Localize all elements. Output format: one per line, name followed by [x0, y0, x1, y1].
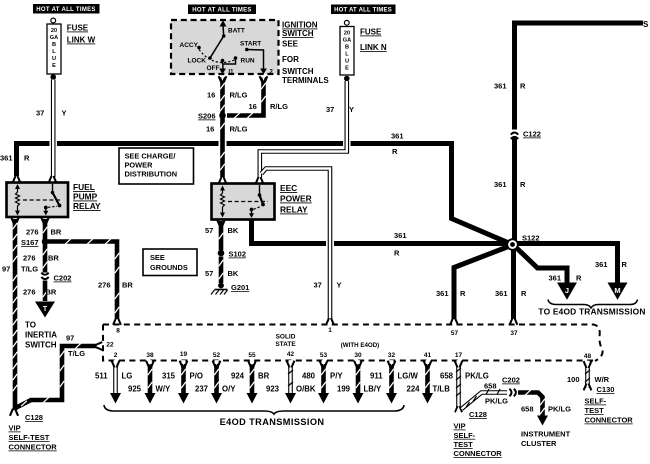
TCM bottom pin 48 wire 100 W/R (hollow)	[584, 353, 592, 391]
wire: S122 right then down to arrow M	[514, 244, 618, 285]
TCM bottom pin 53 wire 480 P/Y	[318, 352, 329, 404]
svg-text:R: R	[392, 147, 398, 156]
svg-text:BATT: BATT	[228, 28, 245, 35]
svg-text:C202: C202	[54, 274, 72, 283]
svg-text:511: 511	[95, 372, 108, 381]
fuel pump relay box	[7, 176, 102, 217]
fuse link W	[47, 18, 96, 80]
svg-text:S102: S102	[229, 250, 247, 259]
svg-text:INSTRUMENT: INSTRUMENT	[521, 430, 571, 439]
svg-text:R: R	[521, 289, 527, 298]
svg-text:57: 57	[451, 330, 459, 337]
svg-text:B: B	[345, 45, 349, 51]
wire: 276 BR S167 branch to TCM pin 8	[45, 239, 121, 326]
label 16 R/LG (below S206)	[206, 125, 248, 134]
label 37 Y (fuse W)	[36, 109, 67, 118]
svg-text:41: 41	[424, 352, 432, 359]
svg-text:FUEL: FUEL	[73, 182, 95, 192]
connector C130	[597, 385, 615, 394]
label 199 LB/Y	[337, 385, 382, 394]
svg-text:C128: C128	[25, 413, 43, 422]
brace TO E4OD TRANSMISSION	[538, 300, 645, 317]
wire: 97 T/LG branch to TCM pin 22	[15, 342, 103, 408]
HOT AT ALL TIMES (left)	[33, 4, 100, 14]
svg-text:I1: I1	[229, 70, 235, 76]
instrument cluster label	[521, 430, 571, 449]
svg-text:L: L	[345, 52, 349, 58]
svg-text:37: 37	[314, 281, 322, 290]
label 658 PK/LG (pin 17)	[440, 372, 489, 381]
svg-text:BR: BR	[48, 254, 59, 263]
svg-text:16: 16	[207, 91, 215, 100]
svg-text:315: 315	[162, 372, 176, 381]
TCM bottom pin 38 wire 925 W/Y	[145, 352, 156, 404]
svg-text:C202: C202	[502, 376, 520, 385]
svg-text:PUMP: PUMP	[73, 192, 98, 202]
label 276 BR (to pin 8)	[98, 281, 133, 290]
svg-text:658: 658	[521, 405, 534, 414]
svg-text:FUSE: FUSE	[360, 28, 382, 37]
svg-text:EEC: EEC	[280, 183, 297, 193]
svg-text:276: 276	[23, 254, 36, 263]
svg-text:1: 1	[328, 327, 332, 334]
svg-text:TO: TO	[25, 321, 36, 330]
svg-text:ACCY: ACCY	[180, 42, 199, 49]
svg-text:R/LG: R/LG	[230, 91, 248, 100]
svg-text:C130: C130	[597, 385, 615, 394]
SEE GROUNDS box	[143, 249, 197, 276]
svg-text:LB/Y: LB/Y	[364, 385, 383, 394]
svg-text:Y: Y	[337, 281, 342, 290]
svg-text:16: 16	[249, 102, 257, 111]
label 361 R (S122 to 57)	[436, 289, 466, 298]
TCM bottom pin 52 wire 237 O/Y	[211, 352, 222, 404]
svg-text:START: START	[240, 41, 261, 48]
fuse link N	[340, 20, 387, 81]
svg-text:SELF-: SELF-	[454, 431, 476, 440]
label 658 (before C202)	[484, 382, 497, 391]
svg-text:48: 48	[584, 353, 592, 360]
svg-text:361: 361	[595, 260, 608, 269]
svg-text:CONNECTOR: CONNECTOR	[9, 443, 58, 452]
svg-text:S206: S206	[198, 112, 216, 121]
TCM bottom pin 2 wire 511 LG (hollow)	[110, 352, 121, 404]
TCM bottom pin 55 wire 924 BR	[247, 352, 258, 404]
svg-text:53: 53	[320, 352, 328, 359]
brace E4OD TRANSMISSION	[104, 405, 404, 427]
label 361 R (below C122)	[494, 180, 526, 189]
TCM bottom pin 42 wire 923 O/BK (hollow)	[285, 351, 296, 404]
VIP self-test connector label (right)	[454, 422, 503, 459]
svg-text:DISTRIBUTION: DISTRIBUTION	[125, 170, 178, 179]
wire: 37 Y branch to TCM pin 1 (hollow)	[262, 169, 334, 326]
svg-text:S167: S167	[21, 238, 39, 247]
connector C128 (VIP left)	[9, 413, 58, 452]
svg-text:97: 97	[66, 334, 74, 343]
label 57 BK (lower)	[205, 269, 239, 278]
label 923 O/BK	[266, 385, 316, 394]
svg-text:276: 276	[98, 281, 111, 290]
label 361 R (left)	[0, 154, 30, 163]
label 361 R (M)	[595, 260, 628, 269]
svg-text:BR: BR	[51, 228, 62, 237]
svg-text:BR: BR	[258, 372, 270, 381]
svg-text:STATE: STATE	[275, 341, 296, 348]
relay border repaint	[7, 183, 275, 220]
svg-text:30: 30	[354, 352, 362, 359]
TCM bottom pin 41 wire 224 T/LB	[422, 352, 433, 404]
svg-text:J: J	[565, 286, 569, 295]
svg-text:CONNECTOR: CONNECTOR	[454, 449, 503, 458]
svg-text:POWER: POWER	[280, 194, 312, 204]
svg-text:W/Y: W/Y	[156, 385, 172, 394]
wire: 57 BK EEC relay to S102 to G201	[217, 219, 225, 283]
svg-text:GA: GA	[343, 38, 351, 44]
svg-text:37: 37	[326, 105, 334, 114]
label 511 LG	[95, 372, 132, 381]
splice S102	[218, 250, 246, 259]
svg-text:276: 276	[23, 288, 36, 297]
ignition wire RUN/OFF to pin 1	[219, 58, 235, 76]
label 224 T/LB	[407, 385, 451, 394]
svg-text:658: 658	[440, 372, 454, 381]
label 100 W/R	[567, 375, 610, 384]
TCM bottom pin 32 wire 911 LG/W	[386, 352, 397, 404]
svg-text:P/O: P/O	[190, 372, 203, 381]
label 361 R (mid horizontal)	[394, 231, 407, 258]
svg-text:20: 20	[344, 31, 350, 37]
label 361 R (J)	[549, 274, 583, 283]
svg-text:U: U	[52, 56, 56, 62]
label 57 BK (upper)	[205, 226, 239, 235]
svg-text:SELF-TEST: SELF-TEST	[9, 433, 50, 442]
label 97 T/LG (left wire)	[2, 265, 38, 274]
svg-text:LOCK: LOCK	[188, 58, 207, 65]
svg-text:PK/LG: PK/LG	[548, 405, 571, 414]
svg-text:T/LG: T/LG	[68, 349, 85, 358]
svg-text:361: 361	[391, 132, 404, 141]
svg-text:BR: BR	[122, 281, 133, 290]
svg-text:G201: G201	[231, 283, 249, 292]
svg-text:TEST: TEST	[454, 440, 474, 449]
label 361 R (near corner x=452)	[391, 132, 404, 157]
label 16 R/LG (pin1)	[207, 91, 248, 100]
label 276 BR (above S167)	[26, 228, 62, 237]
svg-text:POWER: POWER	[125, 161, 154, 170]
svg-text:CLUSTER: CLUSTER	[521, 439, 557, 448]
TCM bottom pin 17 wire 658 PK/LG (hollow hatched)	[455, 352, 463, 408]
svg-text:361: 361	[494, 180, 507, 189]
svg-text:BK: BK	[228, 269, 239, 278]
svg-text:20: 20	[51, 28, 57, 34]
svg-text:8: 8	[116, 328, 120, 335]
svg-text:BK: BK	[228, 226, 239, 235]
connector C202 (on 276 BR)	[40, 273, 71, 283]
label 480 P/Y	[302, 372, 343, 381]
wire: 361 R top right from off-page S to C122 to S122	[515, 20, 650, 242]
svg-text:M: M	[614, 286, 620, 295]
arrow J to E4OD transmission	[557, 283, 577, 300]
svg-text:911: 911	[370, 372, 383, 381]
svg-text:361: 361	[549, 274, 562, 283]
label 237 O/Y	[195, 385, 236, 394]
label 925 W/Y	[128, 385, 171, 394]
svg-text:SWITCH: SWITCH	[25, 341, 57, 350]
svg-text:32: 32	[388, 352, 396, 359]
svg-text:237: 237	[195, 385, 208, 394]
svg-text:SEE: SEE	[282, 40, 299, 49]
svg-text:97: 97	[2, 265, 10, 274]
svg-text:R/LG: R/LG	[230, 125, 248, 134]
svg-text:SOLID: SOLID	[276, 334, 296, 341]
svg-text:55: 55	[248, 352, 256, 359]
ignition switch label	[282, 21, 329, 86]
HOT AT ALL TIMES (right)	[331, 5, 396, 15]
svg-text:LG/W: LG/W	[398, 372, 419, 381]
wire: 97 T/LG fuel pump relay to inertia/VIP (left vertical)	[10, 217, 19, 417]
ignition wire START to pin 2	[247, 50, 274, 76]
svg-text:361: 361	[0, 154, 13, 163]
svg-text:INERTIA: INERTIA	[25, 331, 57, 340]
svg-text:O/Y: O/Y	[222, 385, 236, 394]
svg-text:FUSE: FUSE	[67, 24, 89, 33]
svg-text:R: R	[460, 289, 466, 298]
svg-text:480: 480	[302, 372, 316, 381]
EEC power relay box	[212, 177, 312, 220]
arrow M to E4OD transmission	[608, 283, 628, 300]
label 37 Y (fuse N)	[326, 105, 354, 114]
svg-text:SWITCH: SWITCH	[282, 67, 314, 76]
svg-text:C128: C128	[469, 410, 487, 419]
svg-text:TERMINALS: TERMINALS	[282, 76, 329, 85]
svg-text:37: 37	[36, 109, 44, 118]
TCM bottom pin 19 wire 315 P/O	[178, 351, 189, 404]
wire: S122 diagonal down-left to pin 57	[450, 246, 511, 326]
svg-text:OFF: OFF	[207, 65, 220, 72]
wire: 658 PK/LG diagonal to C202 (hatched)	[462, 389, 508, 409]
splice S167	[21, 238, 48, 247]
svg-text:RELAY: RELAY	[73, 201, 101, 211]
svg-text:Y: Y	[349, 105, 354, 114]
connector C128 (pin 17 bottom)	[455, 406, 487, 419]
wire: 37 Y fuse link N to EEC relay (hollow)	[260, 81, 347, 177]
svg-text:57: 57	[205, 269, 213, 278]
svg-text:BR: BR	[46, 288, 57, 297]
wire: 276 BR fuel pump relay to inertia switch arrow	[41, 217, 49, 301]
svg-text:17: 17	[455, 352, 463, 359]
wire: 16 R/LG ignition pin 1 to S206 to EEC relay	[219, 76, 227, 177]
svg-text:R: R	[576, 274, 582, 283]
svg-text:TO E4OD TRANSMISSION: TO E4OD TRANSMISSION	[538, 307, 645, 317]
svg-text:HOT AT ALL TIMES: HOT AT ALL TIMES	[192, 8, 251, 14]
svg-text:361: 361	[436, 289, 449, 298]
svg-text:PK/LG: PK/LG	[465, 372, 489, 381]
svg-text:224: 224	[407, 385, 421, 394]
label 924 BR	[231, 372, 270, 381]
wire: 361 R from EEC relay to S122 horizontal	[252, 220, 512, 244]
svg-text:57: 57	[205, 226, 213, 235]
label 361 R (S122 to 37)	[495, 289, 527, 298]
svg-text:SEE: SEE	[150, 253, 165, 262]
label 37 Y (to pin 1)	[314, 281, 342, 290]
label PK/LG (below diagonal)	[485, 397, 508, 406]
svg-text:S: S	[643, 20, 649, 29]
ignition switch BATT feed	[220, 20, 227, 36]
arrow T to inertia switch	[25, 302, 57, 350]
splice S122	[506, 234, 539, 251]
svg-text:B: B	[52, 42, 56, 48]
svg-text:HOT AT ALL TIMES: HOT AT ALL TIMES	[334, 8, 392, 14]
splice S206	[198, 112, 226, 121]
svg-text:CONNECTOR: CONNECTOR	[585, 416, 634, 425]
self-test connector label (right)	[585, 397, 634, 425]
ground G201	[211, 283, 249, 295]
svg-text:PK/LG: PK/LG	[485, 397, 508, 406]
svg-text:R/LG: R/LG	[270, 102, 288, 111]
svg-text:R: R	[24, 154, 30, 163]
svg-text:T/LG: T/LG	[21, 265, 38, 274]
svg-text:361: 361	[494, 82, 507, 91]
connector C122	[509, 130, 541, 140]
connector C202 (instrument cluster)	[502, 376, 520, 397]
svg-text:SEE CHARGE/: SEE CHARGE/	[125, 152, 176, 161]
label 16 R/LG (pin2)	[249, 102, 289, 111]
svg-text:42: 42	[287, 351, 295, 358]
wire: 37 Y from fuse link W to fuel pump relay (hollow)	[49, 80, 57, 178]
label 97 T/LG (to pin 22)	[66, 334, 85, 359]
wire: S122 down to pin 37	[510, 246, 518, 325]
wire: S122 diagonal to arrow J	[514, 246, 567, 285]
svg-text:VIP: VIP	[9, 424, 21, 433]
svg-text:RUN: RUN	[241, 58, 255, 65]
svg-text:C122: C122	[523, 130, 541, 139]
svg-text:LINK N: LINK N	[360, 43, 387, 52]
svg-text:R: R	[520, 180, 526, 189]
svg-text:T: T	[43, 306, 48, 313]
svg-text:E: E	[52, 63, 56, 69]
TCM solid state dashed box	[103, 325, 603, 362]
svg-text:P/Y: P/Y	[330, 372, 343, 381]
svg-text:GROUNDS: GROUNDS	[150, 263, 188, 272]
svg-text:361: 361	[495, 289, 508, 298]
svg-text:W/R: W/R	[595, 375, 610, 384]
label 911 LG/W	[370, 372, 418, 381]
svg-text:(WITH E4OD): (WITH E4OD)	[341, 342, 380, 349]
svg-text:658: 658	[484, 382, 497, 391]
svg-text:16: 16	[206, 125, 214, 134]
svg-text:VIP: VIP	[454, 422, 466, 431]
svg-text:O/BK: O/BK	[296, 385, 316, 394]
svg-text:924: 924	[231, 372, 245, 381]
svg-text:FOR: FOR	[282, 55, 299, 64]
svg-text:923: 923	[266, 385, 280, 394]
wire: 361 R main horizontal from fuel pump relay to S122	[17, 144, 512, 245]
svg-text:199: 199	[337, 385, 351, 394]
TCM bottom pin 30 wire 199 LB/Y	[353, 352, 364, 404]
svg-text:LINK W: LINK W	[67, 36, 96, 45]
svg-text:U: U	[345, 59, 349, 65]
svg-text:TEST: TEST	[585, 406, 605, 415]
svg-text:RELAY: RELAY	[280, 205, 308, 215]
svg-text:22: 22	[106, 342, 114, 349]
svg-text:T/LB: T/LB	[433, 385, 451, 394]
svg-text:R: R	[520, 82, 526, 91]
svg-text:S122: S122	[522, 234, 540, 243]
label 658 PK/LG (instrument cluster)	[521, 405, 571, 414]
svg-text:HOT AT ALL TIMES: HOT AT ALL TIMES	[36, 7, 95, 13]
svg-text:LG: LG	[122, 372, 133, 381]
svg-text:19: 19	[180, 351, 188, 358]
wire: 16 R/LG ignition pin 2 to S206	[227, 76, 267, 119]
svg-text:100: 100	[567, 375, 580, 384]
svg-text:925: 925	[128, 385, 142, 394]
svg-text:GA: GA	[50, 35, 58, 41]
wire: 658 PK/LG C202 to instrument cluster	[518, 390, 548, 426]
ignition switch box	[171, 20, 279, 74]
ignition switch contacts	[180, 28, 262, 73]
label 276 BR (below C202)	[23, 288, 57, 297]
svg-text:2: 2	[114, 352, 118, 359]
svg-text:37: 37	[510, 330, 518, 337]
label 315 P/O	[162, 372, 203, 381]
svg-text:52: 52	[213, 352, 221, 359]
svg-text:L: L	[52, 49, 56, 55]
svg-text:R: R	[394, 249, 400, 258]
svg-text:SWITCH: SWITCH	[282, 29, 314, 38]
svg-text:E: E	[345, 66, 349, 72]
SEE CHARGE/POWER DISTRIBUTION box	[119, 148, 194, 184]
svg-text:276: 276	[26, 228, 39, 237]
svg-text:E4OD TRANSMISSION: E4OD TRANSMISSION	[220, 417, 325, 427]
svg-text:38: 38	[146, 352, 154, 359]
label 276 BR (below S167)	[23, 254, 59, 263]
label 361 R (above C122)	[494, 82, 526, 91]
svg-text:R: R	[622, 260, 628, 269]
svg-text:Y: Y	[62, 109, 67, 118]
HOT AT ALL TIMES (middle)	[188, 5, 256, 15]
svg-text:361: 361	[394, 231, 407, 240]
svg-text:SELF-: SELF-	[585, 397, 607, 406]
